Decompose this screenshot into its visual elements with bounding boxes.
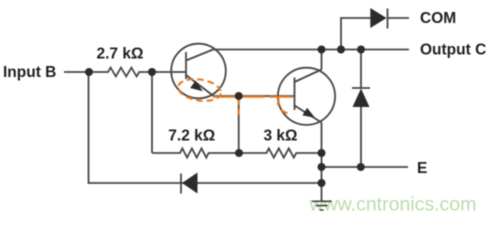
svg-text:COM: COM [420, 10, 456, 27]
svg-text:3 kΩ: 3 kΩ [264, 128, 298, 145]
svg-text:7.2 kΩ: 7.2 kΩ [168, 128, 215, 145]
svg-text:www.cntronics.com: www.cntronics.com [309, 193, 477, 215]
svg-text:E: E [417, 160, 427, 177]
svg-text:Input B: Input B [3, 64, 56, 81]
svg-text:2.7 kΩ: 2.7 kΩ [97, 46, 144, 63]
svg-text:Output C: Output C [420, 42, 486, 59]
